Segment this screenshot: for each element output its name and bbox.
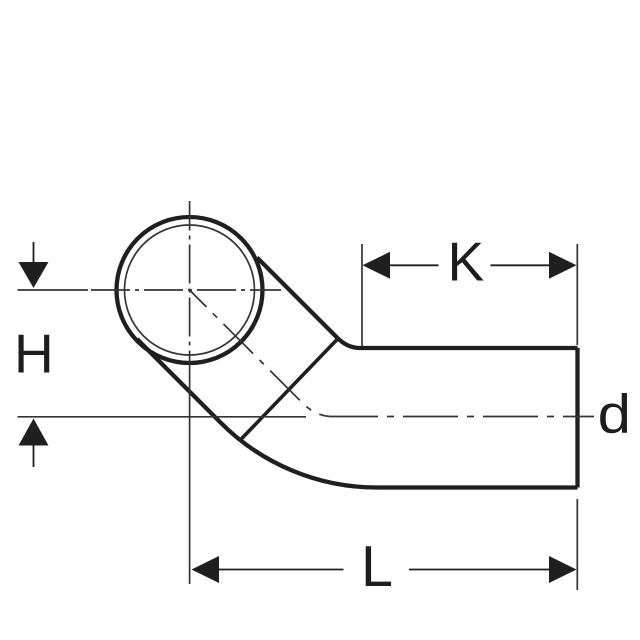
lower outline	[137, 339, 578, 488]
weld seam line	[241, 339, 338, 440]
K right witness line (above pipe)	[576, 244, 578, 345]
vertical centerline dashdot	[189, 201, 191, 377]
horizontal pipe centerline dashdot	[330, 416, 594, 418]
K dimension line left segment	[389, 264, 439, 266]
upper outline	[257, 258, 578, 349]
vertical centerline solid (L witness)	[189, 377, 191, 584]
svg-text:d: d	[598, 383, 631, 445]
H top arrow head	[19, 262, 49, 288]
socket circle outer	[117, 217, 263, 363]
svg-text:K: K	[448, 231, 485, 293]
L right witness line	[576, 499, 578, 590]
L right arrow	[549, 556, 577, 583]
L dimension line left segment	[218, 569, 344, 571]
socket circle inner	[125, 225, 255, 355]
sloped centerline dashdot	[190, 290, 331, 417]
K right arrow	[549, 252, 577, 279]
svg-text:L: L	[361, 535, 393, 599]
H bottom arrow head	[19, 419, 49, 446]
horizontal centerline dashdot	[88, 289, 281, 291]
L dimension line right segment	[409, 569, 550, 571]
pipe end face	[575, 348, 579, 488]
H bottom arrow stem	[33, 445, 35, 467]
K left witness line	[361, 244, 363, 346]
K left arrow	[363, 252, 391, 279]
svg-text:H: H	[14, 323, 54, 385]
L left arrow	[192, 556, 220, 583]
H bottom witness line	[18, 416, 307, 418]
K dimension line right segment	[491, 264, 551, 266]
horizontal centerline solid (H witness top)	[18, 289, 89, 291]
H top arrow stem	[33, 242, 35, 264]
